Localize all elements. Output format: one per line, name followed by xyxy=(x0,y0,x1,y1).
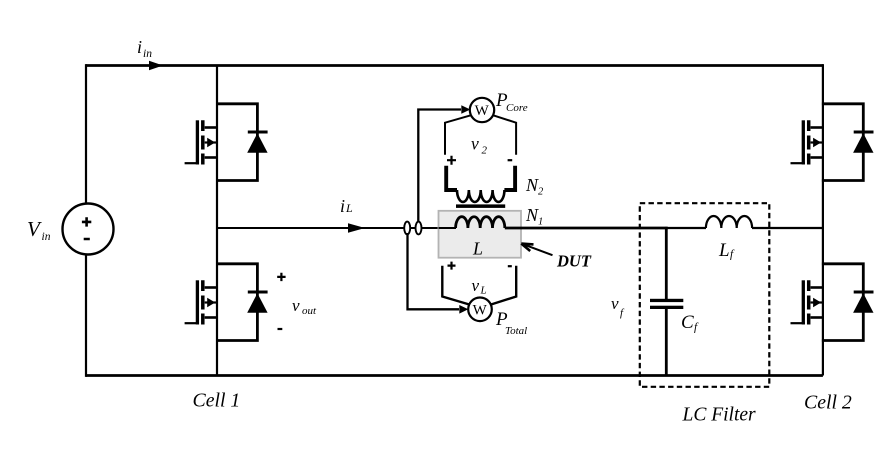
wire into DUT xyxy=(439,227,457,229)
svg-text:N: N xyxy=(525,205,539,225)
current probe ellipse 2 xyxy=(416,222,422,235)
svg-text:N: N xyxy=(525,175,539,195)
capacitor Cf bottom lead xyxy=(665,309,668,376)
wire top rail xyxy=(86,64,823,67)
label v_f xyxy=(611,294,625,319)
label P_Total xyxy=(495,309,527,337)
wire D4 branch loop xyxy=(822,264,863,341)
svg-text:DUT: DUT xyxy=(556,252,592,271)
inductor Lf xyxy=(706,216,752,228)
arrow DUT pointer xyxy=(521,244,552,256)
transistor Q4 xyxy=(791,280,823,324)
label i_in xyxy=(137,37,152,60)
diode D4 xyxy=(853,292,873,313)
wire bottom rail xyxy=(86,374,823,377)
wire left rail lower xyxy=(85,254,87,377)
svg-text:L: L xyxy=(345,201,353,215)
capacitor Cf xyxy=(650,299,683,309)
label + (v_2) xyxy=(447,156,456,165)
wattmeter W (P_Core) xyxy=(470,98,494,122)
wire left rail upper xyxy=(85,64,87,204)
svg-text:Core: Core xyxy=(506,102,528,114)
wire v_L right bracket xyxy=(491,266,516,305)
wire W-core right lead xyxy=(493,115,516,155)
source V_in xyxy=(63,204,114,255)
current probe ellipse 1 xyxy=(404,222,410,235)
inductor L (DUT winding N1) xyxy=(456,217,505,228)
label + (v_out) xyxy=(277,273,285,281)
diode D2 xyxy=(247,292,267,313)
diode D1 xyxy=(247,132,267,153)
wire cell 2 rail xyxy=(822,64,824,375)
label C_f xyxy=(681,312,699,334)
label - (v_L) xyxy=(508,265,512,267)
svg-text:i: i xyxy=(340,196,345,216)
cell 1 upper switch xyxy=(185,104,268,181)
label N_1 xyxy=(525,205,543,228)
label N_2 xyxy=(525,175,544,198)
svg-text:W: W xyxy=(475,103,490,119)
label + (v_L) xyxy=(448,262,456,270)
DUT shaded box xyxy=(439,211,522,258)
LC filter dashed box xyxy=(640,203,770,387)
svg-text:v: v xyxy=(611,294,619,313)
wire mid (Lf to cell2) xyxy=(752,227,823,229)
wire mid right bold (DUT to LC filter) xyxy=(505,227,668,230)
svg-text:1: 1 xyxy=(538,217,543,228)
wire cell 1 rail xyxy=(216,66,218,376)
svg-text:in: in xyxy=(42,231,51,243)
label - (v_out) xyxy=(278,328,283,330)
svg-text:out: out xyxy=(302,305,317,317)
label L_f xyxy=(718,240,735,261)
winding N2 xyxy=(446,166,515,202)
arrow i_L on mid wire xyxy=(348,223,365,232)
label v_L xyxy=(472,276,487,297)
label i_L xyxy=(340,196,353,216)
diode D3 xyxy=(853,132,873,153)
svg-text:L: L xyxy=(718,240,730,261)
transistor Q2 xyxy=(185,280,217,324)
arrow into W core xyxy=(461,105,470,114)
svg-text:2: 2 xyxy=(482,145,488,157)
wattmeter W (P_Total) xyxy=(468,298,492,322)
wire sense up (to P_Core wattmeter) xyxy=(418,110,461,223)
svg-text:V: V xyxy=(27,217,42,241)
cell 2 lower switch xyxy=(791,264,874,341)
svg-text:in: in xyxy=(143,48,152,60)
wire W-core left lead xyxy=(445,115,471,155)
svg-text:C: C xyxy=(681,312,694,333)
wire mid left (cell1 to DUT) xyxy=(217,227,456,229)
svg-text:Cell 2: Cell 2 xyxy=(804,392,852,414)
cell 2 upper switch xyxy=(791,104,874,181)
svg-text:2: 2 xyxy=(538,187,544,198)
arrow i_in on top rail xyxy=(149,61,163,71)
svg-text:Total: Total xyxy=(505,325,527,337)
transistor Q1 xyxy=(185,120,217,164)
wire D2 branch loop xyxy=(216,264,257,341)
cell 1 lower switch xyxy=(185,264,268,341)
wire sense down (to P_Total wattmeter) xyxy=(408,233,460,309)
wire mid (cap junction to Lf) xyxy=(665,227,706,229)
svg-text:v: v xyxy=(292,296,300,315)
label - (v_2) xyxy=(508,159,513,161)
svg-text:v: v xyxy=(472,276,480,295)
svg-text:i: i xyxy=(137,37,142,57)
arrow into W total xyxy=(459,305,468,314)
label P_Core xyxy=(495,90,528,114)
wire D1 branch loop xyxy=(216,104,257,181)
svg-text:W: W xyxy=(473,302,488,318)
svg-text:v: v xyxy=(471,134,479,154)
svg-text:Cell 1: Cell 1 xyxy=(193,390,241,412)
svg-text:L: L xyxy=(472,239,483,259)
wire D3 branch loop xyxy=(822,104,863,181)
label v_out xyxy=(292,296,317,317)
svg-text:LC Filter: LC Filter xyxy=(682,405,757,426)
core bar xyxy=(456,204,505,208)
transistor Q3 xyxy=(791,120,823,164)
label v_2 xyxy=(471,134,488,157)
capacitor Cf top lead xyxy=(665,228,668,299)
svg-text:L: L xyxy=(480,285,487,297)
label V_in xyxy=(27,217,51,243)
wire v_L left bracket xyxy=(442,266,469,305)
